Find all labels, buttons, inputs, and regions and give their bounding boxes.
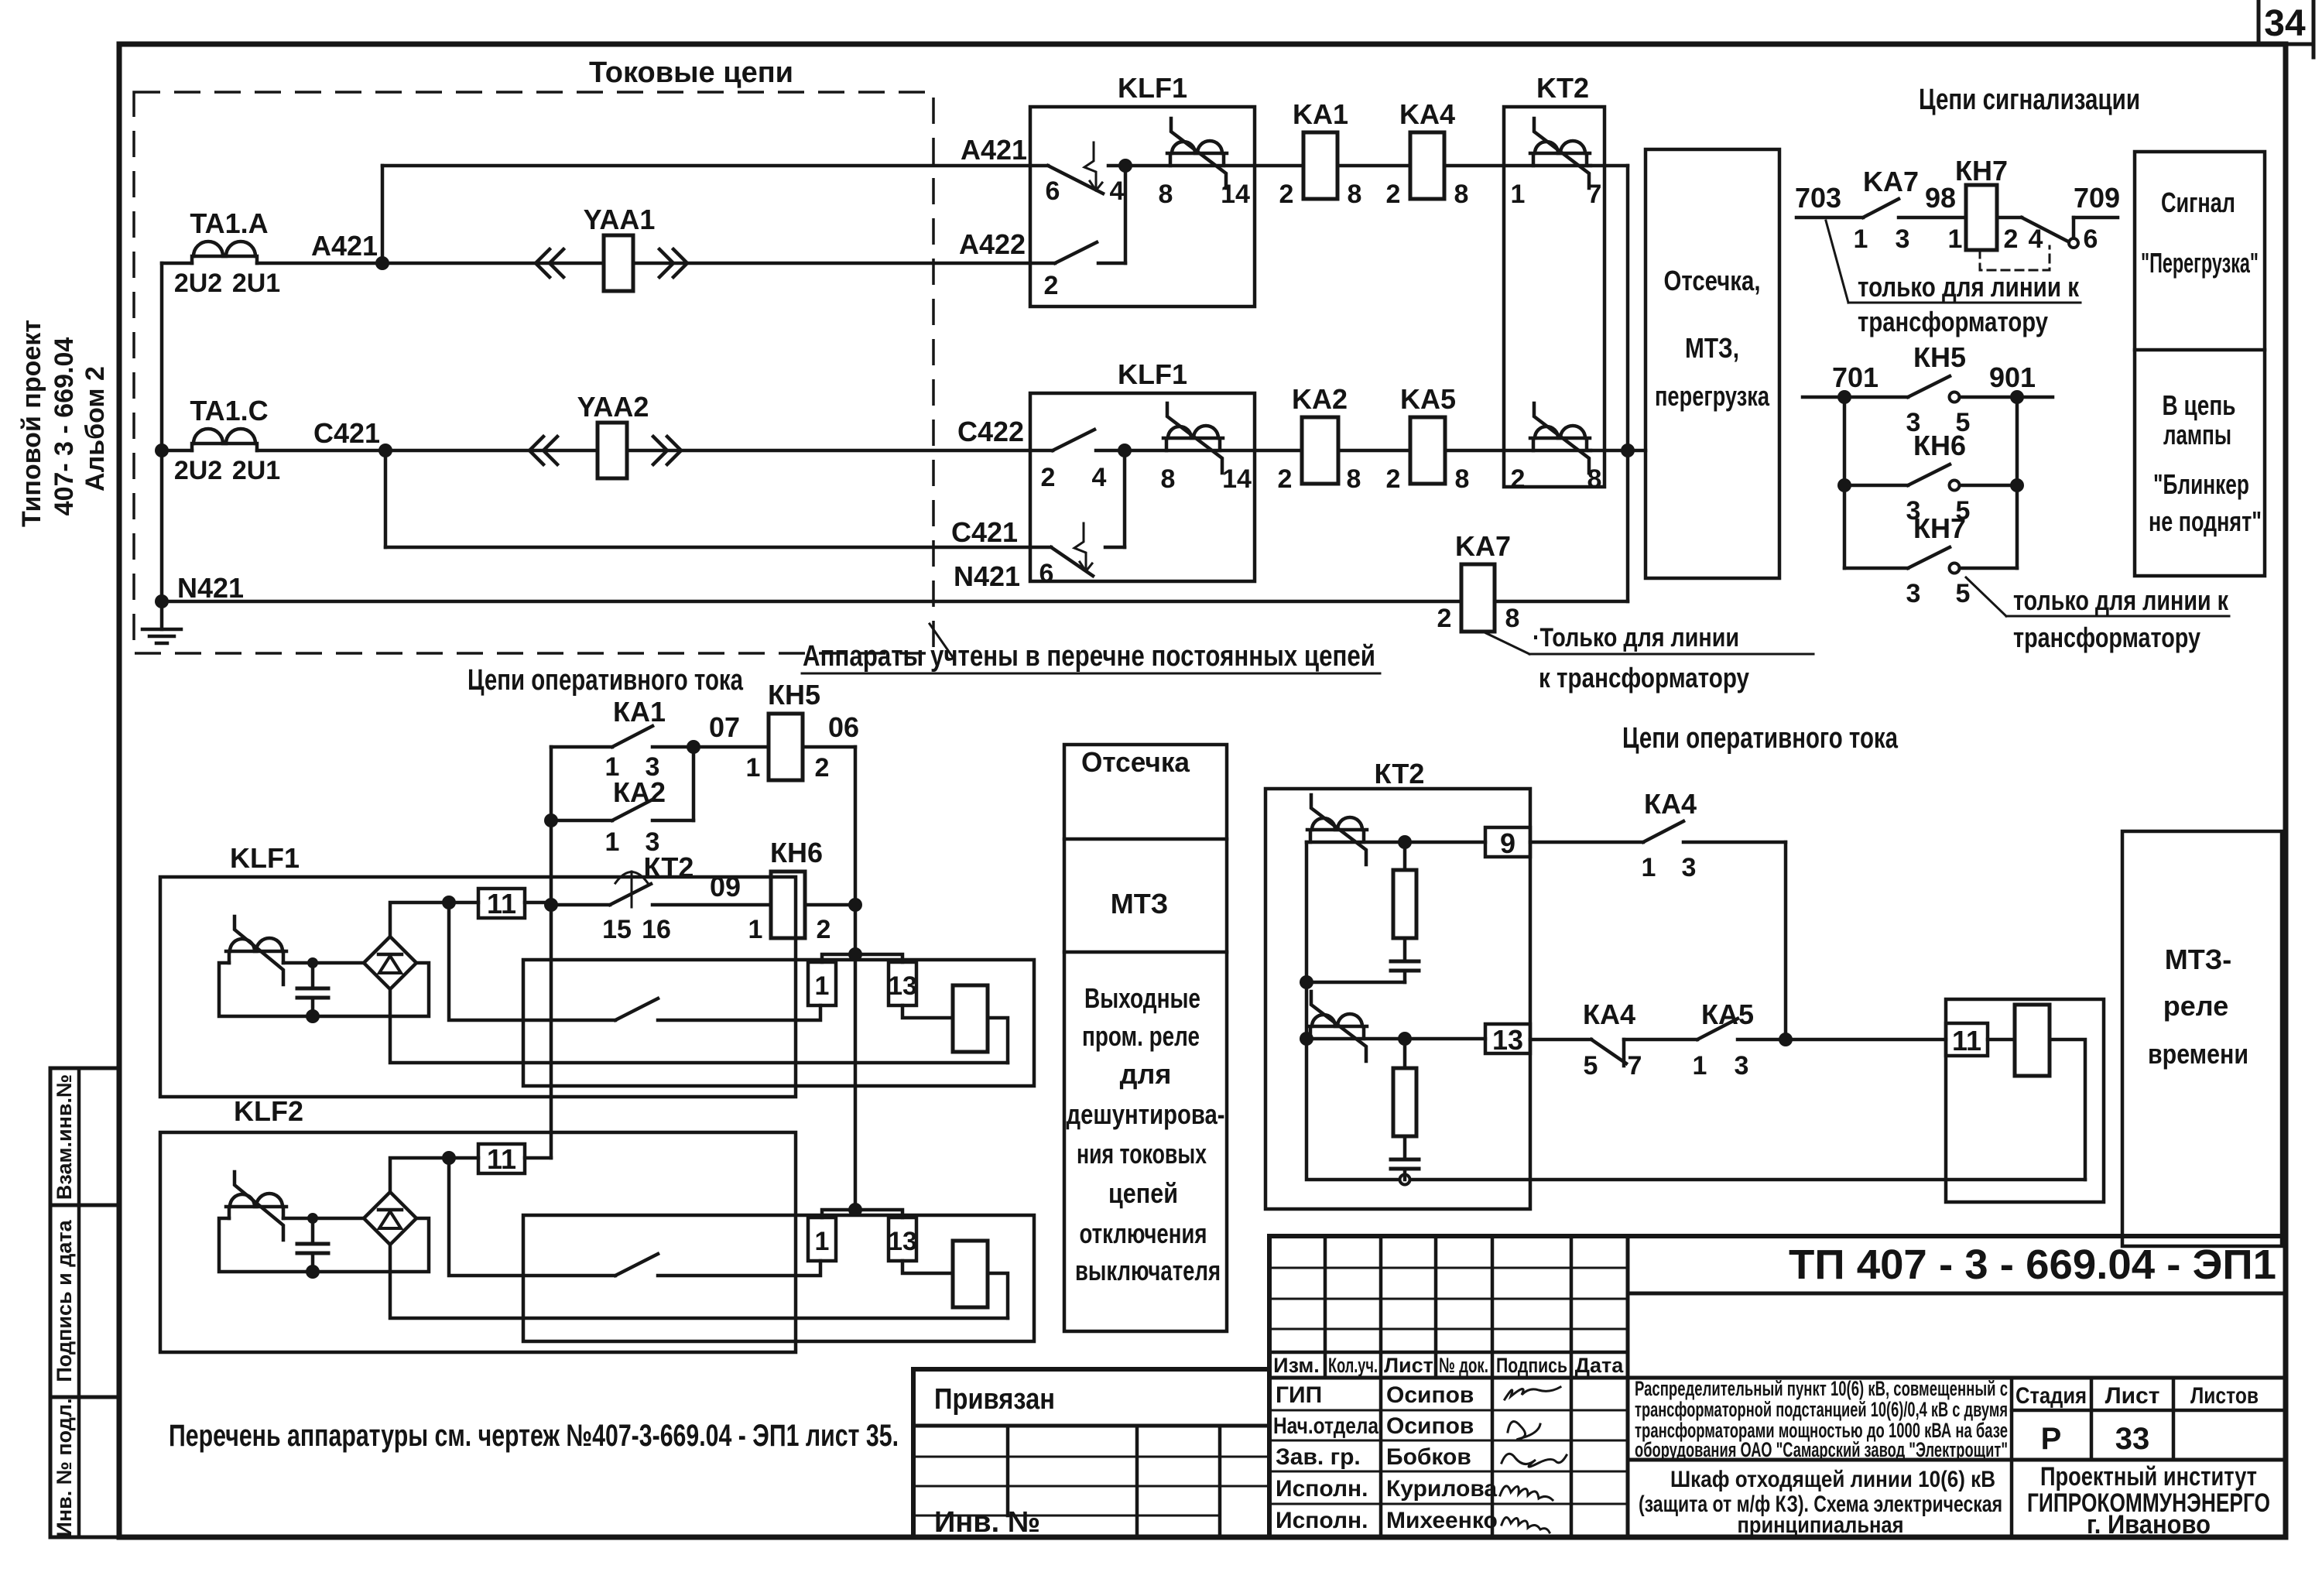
page number cell top-right (2257, 0, 2261, 44)
svg-text:только для линии к: только для линии к (2013, 584, 2229, 616)
svg-text:34: 34 (2264, 3, 2306, 44)
wire C row to KA2 (1125, 449, 1302, 453)
svg-text:Проектный институт: Проектный институт (2040, 1462, 2257, 1492)
wire A421 row (1125, 164, 1303, 168)
svg-text:для: для (1120, 1058, 1172, 1090)
svg-text:11: 11 (1952, 1025, 1981, 1057)
svg-text:06: 06 (828, 711, 859, 743)
time relay coil (1988, 1038, 2015, 1042)
svg-text:703: 703 (1795, 182, 1841, 214)
svg-text:2: 2 (1386, 180, 1401, 209)
svg-text:A421: A421 (311, 230, 378, 262)
svg-text:Стадия: Стадия (2015, 1383, 2087, 1409)
svg-text:отключения: отключения (1080, 1218, 1207, 1249)
note leader (apparatus) (930, 624, 954, 659)
svg-text:Выходные: Выходные (1084, 982, 1200, 1014)
svg-text:лампы: лампы (2163, 419, 2231, 450)
svg-text:2: 2 (1511, 464, 1526, 494)
svg-text:трансформаторной подстанцией 1: трансформаторной подстанцией 10(6)/0,4 к… (1635, 1398, 2008, 1421)
svg-text:5: 5 (1584, 1051, 1598, 1081)
svg-text:2U2: 2U2 (174, 269, 222, 298)
winding KT2 lower (1307, 1026, 1367, 1039)
svg-text:8: 8 (1348, 180, 1362, 209)
svg-text:6: 6 (1039, 559, 1054, 588)
header cell ТП (1626, 1236, 1630, 1537)
wire and changeover contact 4-6 (1997, 216, 2022, 220)
svg-text:KA5: KA5 (1400, 383, 1456, 415)
svg-text:только для линии к: только для линии к (1858, 271, 2080, 303)
svg-text:KA7: KA7 (1863, 166, 1919, 197)
svg-text:ТП 407 - 3 - 669.04 - ЭП1: ТП 407 - 3 - 669.04 - ЭП1 (1789, 1242, 2276, 1288)
contact KLF1 6-4 with release arrow (1048, 166, 1103, 194)
wire KA7 vertical (1626, 450, 1630, 601)
svg-text:Изм.: Изм. (1273, 1354, 1320, 1377)
svg-text:KLF2: KLF2 (234, 1095, 303, 1127)
svg-text:14: 14 (1222, 464, 1252, 494)
wire phase A (162, 262, 192, 265)
signature squiggles (1505, 1387, 1560, 1399)
svg-text:перегрузка: перегрузка (1655, 380, 1770, 412)
revision grid columns (1324, 1236, 1327, 1378)
svg-text:8: 8 (1587, 464, 1602, 494)
svg-text:1: 1 (1693, 1051, 1707, 1081)
svg-text:Шкаф отходящей линии 10(6) кВ: Шкаф отходящей линии 10(6) кВ (1670, 1467, 1995, 1492)
contact KA4 1-3 (1530, 841, 1643, 844)
attachment box Привязан (913, 1369, 1269, 1537)
winding KT2 1-7 (1530, 153, 1590, 166)
svg-text:Аппараты учтены в перечне пост: Аппараты учтены в перечне постоянных цеп… (803, 640, 1375, 673)
svg-text:Цепи сигнализации: Цепи сигнализации (1919, 84, 2140, 116)
svg-text:КА1: КА1 (613, 696, 666, 728)
svg-text:МТЗ: МТЗ (1111, 888, 1169, 920)
wire C421 link up (1123, 450, 1127, 547)
svg-text:ГИП: ГИП (1276, 1382, 1322, 1408)
svg-text:N421: N421 (954, 560, 1020, 592)
svg-text:Инв. №: Инв. № (934, 1506, 1040, 1539)
svg-text:Нач.отдела: Нач.отдела (1273, 1413, 1378, 1439)
svg-text:C422: C422 (957, 416, 1024, 447)
svg-text:2: 2 (817, 915, 831, 944)
winding KLF1 8-14 (1167, 153, 1227, 166)
box МТЗ column (1064, 745, 1227, 1331)
svg-text:Сигнал: Сигнал (2161, 187, 2235, 218)
svg-text:Типовой проект: Типовой проект (17, 320, 46, 527)
svg-text:Исполн.: Исполн. (1276, 1508, 1368, 1533)
svg-text:6: 6 (2084, 224, 2098, 254)
contact KLF1 pin 6 (C421) with release arrow (1051, 547, 1093, 576)
capacitor upper (1391, 960, 1419, 964)
svg-text:14: 14 (1221, 180, 1250, 209)
svg-text:KA1: KA1 (1293, 98, 1348, 130)
output unit box (1946, 999, 2104, 1202)
svg-text:2U1: 2U1 (232, 456, 280, 485)
svg-text:4: 4 (1092, 463, 1107, 492)
wire vertical left (1843, 397, 1847, 568)
capacitor lower (1391, 1158, 1419, 1162)
svg-text:дешунтирова-: дешунтирова- (1067, 1098, 1225, 1130)
note leader transformer (upper) (1826, 221, 1848, 303)
svg-text:1: 1 (746, 753, 761, 783)
svg-text:6: 6 (1046, 176, 1060, 206)
svg-text:КА4: КА4 (1583, 998, 1635, 1030)
terminal box 11 (1946, 1023, 1988, 1056)
svg-text:ния токовых: ния токовых (1077, 1138, 1207, 1170)
svg-text:KLF1: KLF1 (230, 842, 300, 874)
contact KT2 15-16 (time) (544, 898, 558, 912)
node (1779, 1033, 1793, 1046)
svg-text:не поднят": не поднят" (2149, 505, 2262, 537)
svg-text:KA7: KA7 (1455, 530, 1511, 562)
svg-text:901: 901 (1989, 361, 2036, 393)
svg-text:1: 1 (1854, 224, 1868, 254)
stage cells (2010, 1378, 2014, 1537)
svg-text:Распределительный пункт 10(6): Распределительный пункт 10(6) кВ, совмещ… (1635, 1377, 2008, 1400)
svg-text:Перечень аппаратуры см. чертеж: Перечень аппаратуры см. чертеж №407-3-66… (169, 1419, 899, 1453)
svg-text:Токовые цепи: Токовые цепи (589, 57, 793, 89)
node 07 (687, 740, 700, 754)
wire 98 (1899, 216, 1966, 220)
contact KLF1 C422 2-4 (1053, 430, 1094, 450)
wire KH6 out (805, 903, 855, 907)
contact KA2 1-3 (544, 813, 558, 827)
svg-text:C421: C421 (313, 417, 380, 449)
svg-text:·Только для линии: ·Только для линии (1533, 623, 1739, 652)
svg-text:МТЗ-: МТЗ- (2165, 944, 2232, 975)
svg-text:KA4: KA4 (1399, 98, 1455, 130)
svg-text:2: 2 (1044, 271, 1059, 300)
svg-text:трансформатору: трансформатору (2013, 622, 2200, 653)
svg-text:13: 13 (1492, 1024, 1523, 1056)
wire 06 (803, 745, 855, 749)
svg-text:8: 8 (1347, 464, 1361, 494)
svg-text:КН7: КН7 (1913, 512, 1966, 544)
svg-text:701: 701 (1832, 361, 1878, 393)
svg-text:3: 3 (1735, 1051, 1749, 1081)
wire KT2 out top (1589, 164, 1628, 168)
svg-text:Цепи оперативного тока: Цепи оперативного тока (467, 664, 744, 697)
svg-text:КН5: КН5 (1913, 341, 1966, 373)
node at pin 4 (1118, 159, 1132, 173)
svg-text:КН6: КН6 (770, 837, 823, 868)
svg-text:4: 4 (1110, 176, 1125, 206)
left bus wire (160, 263, 164, 603)
svg-text:3: 3 (1682, 853, 1697, 882)
coil out wire (2050, 1039, 2085, 1180)
svg-text:КА4: КА4 (1644, 788, 1697, 820)
svg-text:YAA2: YAA2 (577, 391, 649, 423)
svg-text:времени: времени (2148, 1038, 2248, 1070)
wire (1337, 164, 1410, 168)
svg-text:A422: A422 (959, 228, 1026, 260)
wire 701-901 (1803, 396, 1908, 399)
svg-text:33: 33 (2115, 1422, 2150, 1456)
svg-text:№ док.: № док. (1439, 1354, 1488, 1377)
revision grid rows (1269, 1267, 1628, 1269)
winding KT2 2-8 (1530, 438, 1590, 450)
winding KT2 upper (1307, 830, 1367, 842)
wire loop upper (1307, 842, 1405, 982)
wire 709 (2074, 216, 2118, 220)
wire down (1784, 842, 1788, 1039)
svg-text:KLF1: KLF1 (1118, 72, 1187, 104)
svg-text:КН7: КН7 (1955, 155, 2008, 187)
svg-text:Осипов: Осипов (1386, 1382, 1474, 1408)
svg-text:7: 7 (1587, 180, 1602, 209)
winding KLF1 8-14 (lower) (1163, 438, 1223, 450)
svg-text:2: 2 (1041, 463, 1056, 492)
wire KT2 out bottom (1589, 449, 1646, 453)
box Сигнал Перегрузка / Блинкер (2135, 152, 2265, 576)
node at C422 (1118, 444, 1132, 457)
contact KLF1 pin 2 (A422) (1055, 242, 1097, 263)
resistor lower (1398, 1032, 1412, 1046)
svg-text:г. Иваново: г. Иваново (2087, 1510, 2211, 1539)
svg-text:07: 07 (709, 711, 740, 743)
svg-text:2U2: 2U2 (174, 456, 222, 485)
wire into KT2 (1444, 164, 1591, 168)
relay unit KLF2 (160, 1095, 1034, 1352)
svg-text:Отсечка,: Отсечка, (1664, 265, 1761, 296)
svg-text:Исполн.: Исполн. (1276, 1476, 1368, 1502)
svg-text:Подпись: Подпись (1496, 1354, 1567, 1377)
svg-text:выключателя: выключателя (1075, 1255, 1221, 1286)
svg-text:2U1: 2U1 (232, 269, 280, 298)
svg-text:3: 3 (1896, 224, 1910, 254)
svg-text:TA1.A: TA1.A (190, 207, 268, 239)
svg-text:к трансформатору: к трансформатору (1539, 662, 1749, 694)
svg-text:709: 709 (2074, 182, 2120, 214)
stamp column box (50, 1068, 119, 1537)
note leader (KA7) (1486, 633, 1529, 654)
svg-text:реле: реле (2163, 990, 2228, 1022)
wire riser left (550, 747, 553, 1158)
svg-text:трансформатору: трансформатору (1858, 306, 2048, 337)
svg-text:8: 8 (1455, 464, 1470, 494)
wire phase C to KLF1 (627, 449, 1053, 453)
svg-text:TA1.C: TA1.C (190, 395, 268, 426)
dashed boundary box (134, 92, 933, 653)
contact KA4 5-7 (1530, 1038, 1591, 1042)
svg-text:принципиальная: принципиальная (1738, 1512, 1904, 1538)
svg-text:пром. реле: пром. реле (1082, 1020, 1200, 1052)
svg-text:КН6: КН6 (1913, 430, 1966, 461)
svg-text:В цепь: В цепь (2163, 389, 2236, 421)
svg-text:9: 9 (1500, 827, 1515, 859)
svg-text:КТ2: КТ2 (1375, 758, 1425, 789)
ground (160, 603, 164, 629)
svg-text:2: 2 (1437, 604, 1452, 633)
svg-text:407- 3 - 669.04: 407- 3 - 669.04 (50, 337, 79, 516)
svg-text:7: 7 (1628, 1051, 1642, 1081)
wire to terminal 9 (1307, 841, 1485, 844)
svg-text:"Перегрузка": "Перегрузка" (2141, 247, 2259, 279)
wire phase C (155, 444, 169, 457)
svg-text:1: 1 (748, 915, 763, 944)
wire vertical right (2015, 397, 2019, 568)
svg-text:YAA1: YAA1 (584, 204, 656, 235)
wire 703 (1796, 216, 1863, 220)
svg-text:8: 8 (1454, 180, 1469, 209)
svg-text:8: 8 (1159, 180, 1173, 209)
relay unit KLF1 (middle) (160, 842, 1034, 1097)
svg-text:Инв. № подл.: Инв. № подл. (53, 1398, 76, 1536)
wire into KT2 lower (1445, 449, 1591, 453)
wire loop lower (1300, 1032, 1313, 1046)
svg-text:Курилова: Курилова (1386, 1476, 1497, 1502)
svg-text:Осипов: Осипов (1386, 1413, 1474, 1439)
svg-text:Лист: Лист (2105, 1383, 2160, 1409)
contact KA1 1-3 (551, 745, 612, 749)
svg-text:МТЗ,: МТЗ, (1685, 332, 1739, 364)
mechanical link dashed (1980, 246, 2050, 270)
svg-text:3: 3 (1906, 579, 1921, 608)
svg-text:1: 1 (1642, 853, 1656, 882)
box Отсечка МТЗ перегрузка (1646, 149, 1779, 578)
wire N421 (155, 594, 169, 608)
signature rows (1269, 1409, 1628, 1412)
svg-text:Отсечка: Отсечка (1081, 746, 1190, 778)
wire phase A to KLF1 (633, 262, 1055, 265)
resistor upper (1398, 835, 1412, 849)
svg-text:2: 2 (815, 753, 830, 783)
release arrow (zigzag) (1084, 142, 1102, 190)
svg-text:КА2: КА2 (613, 776, 666, 808)
svg-text:КН5: КН5 (768, 679, 820, 711)
svg-text:5: 5 (1956, 579, 1971, 608)
terminal box 13 (1485, 1024, 1530, 1053)
svg-text:Привязан: Привязан (934, 1383, 1055, 1416)
svg-text:1: 1 (1948, 224, 1963, 254)
svg-text:2: 2 (1278, 464, 1293, 494)
wire C421 branch down (384, 450, 388, 547)
svg-text:98: 98 (1925, 182, 1956, 214)
svg-text:15: 15 (602, 915, 632, 944)
svg-text:KT2: KT2 (1536, 72, 1589, 104)
svg-text:KLF1: KLF1 (1118, 358, 1187, 390)
svg-text:16: 16 (642, 915, 671, 944)
terminal box 9 (1485, 827, 1530, 857)
svg-text:Зав. гр.: Зав. гр. (1276, 1444, 1361, 1470)
wire pin4 to pin2 link (1124, 166, 1128, 263)
svg-text:1: 1 (1511, 180, 1526, 209)
svg-text:Р: Р (2041, 1422, 2062, 1456)
svg-text:8: 8 (1161, 464, 1176, 494)
svg-text:2: 2 (2004, 224, 2019, 254)
svg-text:Альбом 2: Альбом 2 (80, 366, 110, 491)
svg-text:A421: A421 (961, 134, 1027, 166)
main table outer (1269, 1236, 2286, 1537)
svg-text:8: 8 (1505, 604, 1520, 633)
wire (1338, 449, 1410, 453)
wire KA2 up (692, 747, 696, 820)
note leader transformer (lower) (1966, 577, 2006, 616)
svg-text:N421: N421 (177, 572, 244, 604)
svg-text:Цепи оперативного тока: Цепи оперативного тока (1622, 722, 1899, 755)
svg-text:KA2: KA2 (1292, 383, 1348, 415)
svg-text:2: 2 (1386, 464, 1401, 494)
svg-text:2: 2 (1279, 180, 1294, 209)
wire to terminal 13 (1307, 1037, 1485, 1041)
svg-text:Бобков: Бобков (1386, 1444, 1471, 1470)
svg-text:Кол.уч.: Кол.уч. (1328, 1354, 1378, 1377)
svg-text:Листов: Листов (2190, 1383, 2259, 1409)
svg-text:C421: C421 (951, 516, 1018, 548)
svg-text:Взам.инв.№: Взам.инв.№ (53, 1074, 76, 1200)
svg-text:"Блинкер: "Блинкер (2153, 468, 2249, 500)
svg-text:Дата: Дата (1575, 1354, 1624, 1377)
svg-text:Лист: Лист (1384, 1354, 1433, 1377)
svg-text:Михеенко: Михеенко (1386, 1508, 1498, 1533)
svg-text:1: 1 (605, 827, 620, 857)
box МТЗ реле времени (2122, 831, 2282, 1246)
svg-text:цепей: цепей (1108, 1177, 1178, 1209)
wire A421 branch up (381, 166, 385, 263)
svg-text:Подпись и дата: Подпись и дата (53, 1219, 76, 1382)
